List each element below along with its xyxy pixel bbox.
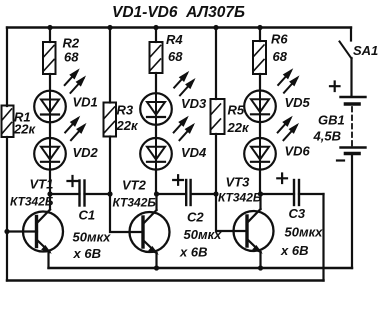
junction VT3 collector node — [258, 191, 263, 196]
wire VT3 emitter — [259, 252, 261, 268]
svg-text:VD6: VD6 — [285, 144, 311, 159]
junction VT2 collector node — [154, 191, 159, 196]
transistor VT2 КТ342Б — [130, 210, 170, 253]
svg-text:50мкx: 50мкx — [285, 225, 324, 240]
svg-text:50мкx: 50мкx — [73, 230, 112, 245]
LED VD2 — [34, 138, 66, 170]
svg-text:R4: R4 — [166, 32, 183, 47]
wire VD4 to collector node — [155, 170, 157, 194]
resistor R1 — [2, 106, 14, 138]
wire VT1 collector — [49, 194, 51, 210]
label battery plus — [330, 82, 340, 92]
transistor VT3 КТ342Б — [234, 209, 274, 252]
LED VD3 — [140, 93, 172, 125]
svg-text:22к: 22к — [227, 120, 250, 135]
wire emitter ground line — [49, 267, 353, 269]
wire R4 to VD3 — [155, 73, 157, 93]
junction C2 base column — [213, 191, 218, 196]
svg-text:VD5: VD5 — [285, 95, 311, 110]
wire VD1 to VD2 — [49, 122, 51, 138]
LED VD6 — [244, 138, 276, 170]
wire left base column upper — [6, 28, 8, 107]
wire VT1 emitter — [47, 252, 49, 269]
svg-text:VT3: VT3 — [226, 175, 251, 190]
wire VD5 to VD6 — [259, 122, 261, 138]
resistor R2 — [43, 42, 56, 74]
svg-text:КТ342Б: КТ342Б — [218, 191, 262, 205]
svg-text:x 6В: x 6В — [73, 246, 101, 261]
label C2 polarity + — [173, 175, 183, 185]
label C3 polarity + — [277, 174, 287, 184]
junction VT3 emitter node — [258, 265, 263, 270]
svg-text:VD1-VD6 АЛ307Б: VD1-VD6 АЛ307Б — [112, 4, 245, 21]
svg-text:R5: R5 — [228, 103, 245, 118]
svg-text:4,5В: 4,5В — [313, 129, 341, 144]
wire C2 to VT3 base column — [191, 193, 216, 195]
svg-text:C3: C3 — [289, 206, 306, 221]
wire VT2 collector — [155, 194, 157, 210]
svg-text:x 6В: x 6В — [280, 243, 308, 258]
wire VT1 base — [7, 230, 37, 232]
wire VD6 to collector node — [259, 170, 261, 194]
junction bus R2 — [47, 25, 52, 30]
resistor R6 — [253, 41, 266, 74]
wire feedback bottom line — [7, 279, 324, 281]
svg-text:68: 68 — [273, 49, 288, 64]
svg-text:VD1: VD1 — [73, 95, 98, 110]
transistor VT1 КТ342Б — [23, 210, 63, 253]
resistor R3 — [104, 103, 117, 137]
wire VT3 collector — [259, 194, 261, 209]
capacitor C1 — [80, 181, 85, 206]
wire bus to R5 — [215, 28, 217, 100]
LED VD1 — [34, 91, 66, 123]
wire collector node to C3 — [261, 193, 295, 195]
wire R6 to VD5 — [259, 74, 261, 91]
svg-text:VD4: VD4 — [181, 145, 207, 160]
LED VD1 emission arrows — [65, 70, 85, 93]
LED VD5 — [244, 91, 276, 123]
svg-text:22к: 22к — [13, 122, 36, 137]
label battery minus — [337, 159, 344, 161]
svg-text:VT1: VT1 — [30, 177, 54, 192]
wire C3 return vertical — [322, 194, 324, 281]
wire switch to battery — [350, 58, 352, 96]
svg-text:GB1: GB1 — [318, 113, 345, 128]
wire R3 to VT2 base — [110, 137, 143, 233]
wire R5 to VT3 base — [216, 134, 247, 231]
LED VD5 emission arrows — [278, 70, 298, 93]
wire bus to R6 — [259, 28, 261, 42]
resistor R4 — [150, 42, 163, 73]
wire C3 right to return — [299, 193, 324, 195]
junction VT1 base node — [4, 229, 9, 234]
wire VT2 emitter — [155, 253, 157, 268]
svg-text:x 6В: x 6В — [179, 245, 207, 260]
LED VD3 emission arrows — [174, 72, 194, 95]
svg-text:R6: R6 — [271, 32, 288, 47]
capacitor C2 — [186, 180, 190, 205]
wire top positive bus — [7, 26, 351, 28]
svg-text:22к: 22к — [116, 118, 139, 133]
resistor R5 — [211, 99, 225, 134]
switch SA1 blade — [340, 42, 352, 59]
wire battery to ground line — [351, 154, 353, 268]
label C1 polarity + — [68, 176, 78, 186]
junction bus R6 — [257, 25, 262, 30]
junction VT2 emitter node — [154, 265, 159, 270]
wire bus to R3 — [109, 28, 111, 103]
junction bus R3 — [107, 25, 112, 30]
wire bus to R4 — [155, 28, 157, 43]
LED VD6 emission arrows — [278, 117, 298, 140]
svg-text:VD2: VD2 — [73, 145, 99, 160]
svg-text:C1: C1 — [79, 208, 96, 223]
LED VD2 emission arrows — [65, 117, 85, 140]
wire VD2 to collector node — [49, 170, 51, 194]
svg-text:68: 68 — [168, 49, 183, 64]
svg-text:R2: R2 — [63, 36, 80, 51]
capacitor C3 — [294, 180, 299, 205]
LED VD4 emission arrows — [174, 117, 194, 140]
battery GB1 — [341, 97, 366, 154]
junction VT1 collector node — [47, 191, 52, 196]
svg-text:C2: C2 — [187, 210, 204, 225]
wire R2 to VD1 — [49, 74, 51, 91]
junction bus R4 — [153, 25, 158, 30]
wire VD3 to VD4 — [155, 125, 157, 138]
svg-text:68: 68 — [64, 50, 79, 65]
svg-text:SA1: SA1 — [353, 43, 378, 58]
svg-text:R3: R3 — [117, 103, 134, 118]
LED VD4 — [140, 138, 172, 170]
svg-text:КТ342Б: КТ342Б — [10, 195, 54, 209]
wire bus to switch SA1 — [350, 28, 352, 41]
wire bus to R2 — [49, 28, 51, 43]
svg-text:VD3: VD3 — [181, 96, 207, 111]
junction bus R5 — [213, 25, 218, 30]
wire left base column lower — [6, 137, 8, 281]
svg-text:VT2: VT2 — [122, 178, 147, 193]
junction C1 base column — [107, 191, 112, 196]
wire collector node to C1 — [50, 193, 80, 195]
wire C1 to VT2 base column — [85, 193, 111, 195]
wire collector node to C2 — [157, 193, 187, 195]
svg-text:КТ342Б: КТ342Б — [113, 196, 157, 210]
